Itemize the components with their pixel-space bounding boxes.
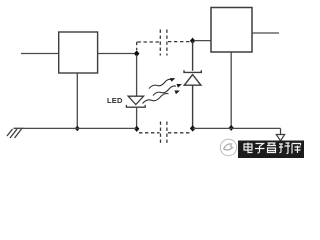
- parasitic capacitor C2 bottom (dashed): [139, 122, 190, 144]
- wire LED anode vertical: [136, 55, 138, 96]
- node junction dot LED cathode on rail: [134, 126, 139, 132]
- light emission arrows: [143, 79, 177, 103]
- IC U1 left box: [59, 32, 98, 73]
- wire photodiode top vertical: [192, 41, 194, 71]
- wire U2 bottom to output rail: [230, 52, 232, 128]
- node junction dot U2 ground: [229, 125, 234, 131]
- LED D1: [126, 96, 145, 107]
- parasitic capacitor C1 top (dashed): [137, 30, 191, 56]
- watermark text (stylised CJK strokes): [244, 143, 301, 154]
- svg-text:LED: LED: [107, 96, 123, 105]
- wire U1 output to LED node: [98, 53, 135, 55]
- watermark bar: [238, 141, 304, 159]
- node junction dot under U1: [75, 126, 80, 132]
- wire U2 output right: [252, 32, 279, 34]
- node junction dot LED anode: [134, 50, 140, 57]
- wire ground rail right (output side): [193, 127, 281, 129]
- char 1 dian: [244, 143, 253, 153]
- wire U2 input: [194, 40, 211, 42]
- wire LED cathode vertical: [136, 107, 138, 128]
- ground arrow right: [276, 128, 284, 140]
- char 5 ku: [292, 144, 301, 154]
- char 3 zi2: [267, 143, 276, 153]
- char 2 zi: [255, 144, 265, 154]
- node junction dot photodiode anode on rail: [190, 125, 196, 131]
- wire ground rail left (input side): [14, 127, 137, 129]
- wire U1 bottom to ground rail: [76, 73, 78, 128]
- photodiode D2: [184, 70, 201, 85]
- char 4 liao: [279, 143, 290, 154]
- node junction dot photodiode cathode: [190, 38, 195, 44]
- wire photodiode bottom vertical: [192, 85, 194, 128]
- IC U2 right box: [211, 8, 252, 53]
- wire left input: [21, 53, 59, 55]
- watermark logo circle: [220, 139, 236, 155]
- ground earth left: [7, 128, 25, 138]
